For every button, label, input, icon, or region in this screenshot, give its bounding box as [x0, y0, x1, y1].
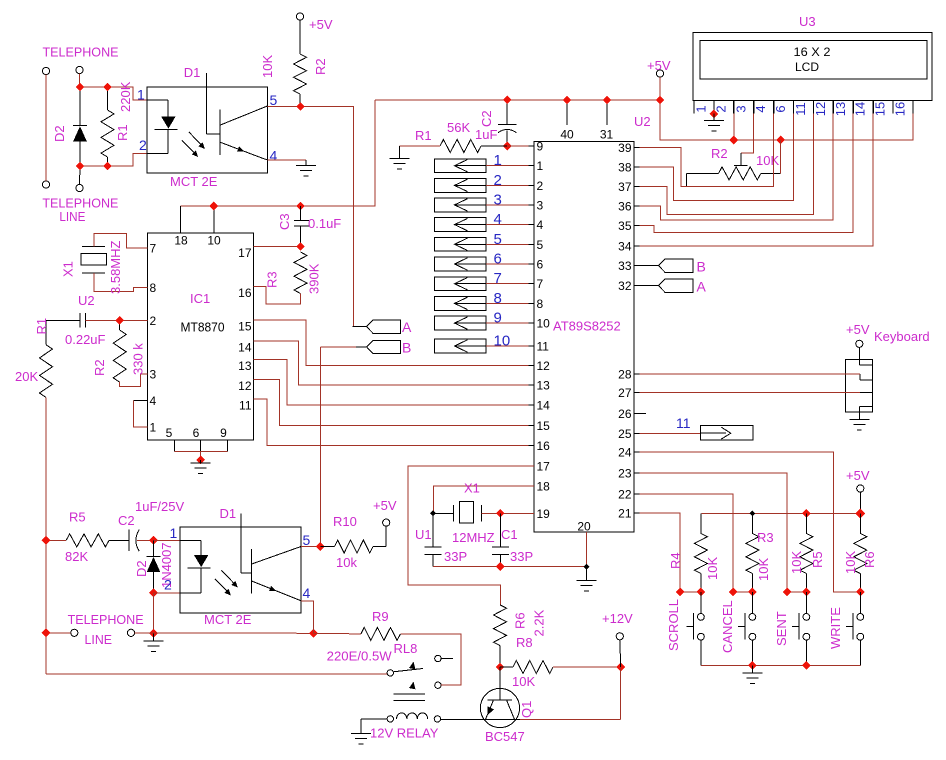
junction dot Q1 base: [496, 663, 505, 672]
svg-text:4: 4: [270, 148, 278, 164]
wire left telephone vertical: [45, 75, 47, 181]
wire MCU pin20 to gnd: [586, 532, 588, 566]
svg-text:1: 1: [170, 525, 178, 541]
svg-text:9: 9: [494, 310, 502, 327]
svg-text:330 k: 330 k: [131, 343, 146, 375]
svg-text:17: 17: [238, 246, 252, 260]
buffer box 3: [435, 198, 487, 212]
junction dot R2/opto1: [296, 102, 305, 111]
junction dot rail R5col: [802, 509, 811, 518]
wire MCU pin27 to keyboard: [640, 391, 861, 393]
wire buffer 6 to MCU: [486, 263, 534, 265]
terminal tel-line A: [71, 629, 78, 636]
wire opto1 pin4 to ground: [268, 159, 306, 161]
wire MCU pin24 to col4: [640, 452, 861, 592]
capacitor U1 33P: [432, 513, 434, 547]
svg-text:10K: 10K: [843, 551, 858, 574]
wire buffer 7 to MCU: [486, 283, 534, 285]
junction dot gnd rail: [748, 661, 757, 670]
junction dot col4: [856, 588, 865, 597]
svg-text:7: 7: [150, 242, 157, 256]
terminal telephone top-right: [76, 66, 83, 73]
wire to opto2 pin2: [154, 592, 181, 594]
MCU pin 36: [634, 205, 640, 207]
svg-text:82K: 82K: [65, 549, 88, 564]
wire rail to R5: [46, 539, 66, 541]
svg-text:C2: C2: [479, 110, 494, 127]
svg-text:9: 9: [537, 140, 544, 154]
resistor R3 10K (switch col 2): [751, 513, 753, 533]
MCU pin 15: [529, 424, 535, 426]
ground (MCU pin20): [577, 581, 597, 591]
svg-text:BC547: BC547: [485, 729, 525, 744]
svg-text:19: 19: [537, 507, 551, 521]
wire MCU pin38 to LCD pin6: [640, 114, 794, 201]
+12V terminal: [616, 633, 623, 640]
terminal tel-line B: [127, 629, 134, 636]
buffer box 1: [435, 159, 487, 173]
junction dot C2 top: [503, 95, 512, 104]
relay coil: [387, 716, 393, 722]
svg-text:C3: C3: [277, 213, 292, 230]
svg-text:4: 4: [537, 218, 544, 232]
wire node to opto2 pin1: [154, 539, 181, 541]
svg-text:R2: R2: [92, 359, 107, 376]
ground (LCD pin1): [704, 121, 724, 131]
diode D2 (telephone clamp): [79, 87, 81, 126]
svg-text:RL8: RL8: [394, 641, 418, 656]
wire pot right to bus: [780, 140, 782, 173]
svg-text:R4: R4: [668, 552, 683, 569]
svg-text:R2: R2: [313, 58, 328, 75]
wire to Q1 collector: [520, 718, 621, 720]
svg-text:40: 40: [560, 128, 574, 142]
svg-text:26: 26: [618, 407, 632, 421]
svg-text:220K: 220K: [118, 81, 133, 112]
junction dot pin2/330k: [115, 316, 124, 325]
wire opto1 pin5 to R2: [268, 106, 301, 108]
svg-text:A: A: [697, 279, 707, 295]
svg-text:31: 31: [600, 128, 614, 142]
buffer box 5: [435, 237, 487, 251]
wire MCU pin22 to col2: [640, 494, 753, 592]
svg-text:Q1: Q1: [519, 701, 534, 718]
junction dot opto2 pin5/R10/tagB: [316, 542, 325, 551]
svg-text:15: 15: [238, 320, 252, 334]
junction dot D2 bottom: [149, 589, 158, 598]
resistor R9 220E/0.5W: [361, 627, 401, 640]
svg-text:6: 6: [773, 105, 788, 112]
MCU pin 7: [529, 283, 535, 285]
svg-text:38: 38: [618, 161, 632, 175]
wire tag B down to opto2 pin5: [319, 347, 321, 547]
svg-text:2.2K: 2.2K: [532, 609, 547, 636]
resistor R3 390K: [294, 252, 307, 294]
svg-text:R8: R8: [516, 635, 533, 650]
svg-text:1: 1: [137, 87, 145, 103]
MCU pin 2: [529, 184, 535, 186]
svg-text:8: 8: [537, 297, 544, 311]
switch gnd rail: [701, 664, 860, 666]
IC1 pin 17: [254, 246, 260, 248]
svg-text:11: 11: [676, 415, 691, 431]
junction dot VDD rail/pin10: [209, 202, 218, 211]
crystal X1 12MHZ: [452, 505, 454, 521]
terminal telephone-line bottom-left: [42, 181, 49, 188]
LCD U3 outer box: [693, 33, 932, 101]
svg-text:9: 9: [220, 426, 227, 440]
node tag B (left): [366, 340, 400, 353]
relay core bars: [394, 693, 426, 695]
wire MCU pin39 to LCD pin4: [640, 114, 774, 187]
buffer box 10: [435, 339, 487, 353]
+5V terminal (switches): [857, 485, 864, 492]
wire crystal to C1 node: [481, 512, 500, 514]
resistor R5 10K (switch col 3): [805, 513, 807, 533]
svg-text:AT89S8252: AT89S8252: [553, 319, 621, 334]
resistor R1 20K: [40, 345, 53, 398]
junction dot col2 left: [729, 588, 738, 597]
wire buffer 3 to MCU: [486, 204, 534, 206]
wire C2 to node: [137, 539, 154, 541]
svg-text:1uF: 1uF: [475, 127, 497, 142]
svg-text:7: 7: [537, 277, 544, 291]
svg-text:1: 1: [694, 105, 709, 112]
capacitor U2 0.22uF: [79, 313, 81, 327]
MCU pin 8: [529, 302, 535, 304]
svg-text:R9: R9: [372, 609, 389, 624]
capacitor C3 0.1uF: [300, 206, 302, 221]
svg-text:18: 18: [174, 234, 188, 248]
junction dot (black) crystal left: [430, 510, 436, 516]
svg-text:2: 2: [139, 137, 147, 153]
terminal telephone-line bottom-right: [76, 184, 83, 191]
junction dot C1 gnd: [496, 562, 505, 571]
svg-text:12: 12: [813, 102, 828, 116]
resistor R1 220K: [101, 110, 114, 157]
svg-text:10: 10: [207, 234, 221, 248]
ground (R1 56K): [390, 159, 410, 169]
svg-text:13: 13: [238, 359, 252, 373]
junction dot LCD pin2 bus: [729, 136, 738, 145]
node tag A (MCU pin32): [640, 285, 659, 287]
MCU pin 11: [529, 345, 535, 347]
wire IC1 pin11 to MCU pin16: [254, 399, 534, 446]
buffer box 2: [435, 179, 487, 193]
svg-text:24: 24: [618, 446, 632, 460]
ground (telephone line): [144, 641, 164, 651]
svg-text:12: 12: [537, 359, 551, 373]
wire MCU pin18 to crystal: [434, 486, 535, 513]
svg-text:TELEPHONE: TELEPHONE: [43, 45, 119, 60]
svg-text:C1: C1: [501, 527, 518, 542]
svg-text:+12V: +12V: [602, 611, 633, 626]
MCU pin 38: [634, 166, 640, 168]
svg-text:28: 28: [618, 368, 632, 382]
buffer box 4: [435, 218, 487, 232]
wire IC1 pin4 to pin1 loop: [133, 400, 147, 402]
svg-text:8: 8: [494, 290, 502, 307]
wire MCU pin23 to col3: [640, 473, 807, 592]
wire +5V top rail: [375, 99, 660, 101]
buffer box 7: [435, 277, 487, 291]
resistor R6 2.2K: [494, 605, 507, 646]
svg-text:D2: D2: [52, 125, 67, 142]
wire buffer 1 to MCU: [486, 165, 534, 167]
IC1 pin 3: [142, 373, 148, 375]
svg-text:+5V: +5V: [846, 468, 870, 483]
svg-text:10K: 10K: [756, 153, 779, 168]
wire X1 top to IC1 pin7: [94, 234, 147, 249]
junction dot col1: [697, 588, 706, 597]
svg-text:220E/0.5W: 220E/0.5W: [327, 649, 393, 664]
wire buffer 10 to MCU: [486, 345, 534, 347]
switch CANCEL: [751, 592, 753, 614]
wire buffer 2 to MCU: [486, 184, 534, 186]
MCU pin 1: [529, 165, 535, 167]
wire MCU pin36 to LCD pin12: [640, 114, 834, 221]
svg-text:U3: U3: [799, 14, 816, 29]
svg-text:R6: R6: [513, 612, 528, 629]
svg-text:34: 34: [618, 240, 632, 254]
MCU pin 9: [529, 145, 535, 147]
wire opto2 pin5 to node: [301, 546, 320, 548]
MCU pin 26: [634, 413, 640, 415]
svg-text:21: 21: [618, 507, 632, 521]
svg-text:20: 20: [577, 520, 591, 534]
transistor Q1 BC547: [480, 688, 519, 727]
junction dot pot bus: [776, 136, 785, 145]
MCU top pins 40 31: [566, 100, 568, 125]
svg-text:22: 22: [618, 488, 632, 502]
junction dot C2 bottom: [503, 142, 512, 151]
svg-text:3: 3: [537, 198, 544, 212]
svg-text:5: 5: [494, 231, 502, 248]
svg-text:TELEPHONE: TELEPHONE: [68, 612, 144, 627]
wire D2 node down: [153, 593, 155, 633]
IC1 pin 7: [142, 247, 148, 249]
wire R8 to +12V node: [553, 666, 621, 668]
buffer box 6: [435, 257, 487, 271]
svg-text:A: A: [402, 319, 412, 335]
svg-text:R1: R1: [415, 128, 432, 143]
opto1 light arrows: [189, 132, 202, 146]
opto-coupler MCT 2E (lower) box: [180, 527, 301, 613]
svg-text:15: 15: [537, 419, 551, 433]
MCU pin 28: [634, 373, 640, 375]
svg-text:6: 6: [494, 251, 502, 268]
svg-text:R5: R5: [810, 551, 825, 568]
potentiometer R2 10K (LCD contrast): [719, 167, 761, 180]
junction dot: [76, 83, 85, 92]
junction dot: [103, 83, 112, 92]
wire opto2 pin4 down: [301, 601, 314, 634]
ground (relay coil): [351, 734, 371, 744]
svg-text:16: 16: [238, 286, 252, 300]
svg-text:MCT 2E: MCT 2E: [170, 174, 218, 189]
svg-text:B: B: [697, 259, 706, 275]
svg-text:R10: R10: [333, 514, 357, 529]
svg-text:B: B: [402, 340, 411, 356]
svg-text:33P: 33P: [444, 549, 467, 564]
ground (opto1 pin4): [296, 166, 316, 176]
junction dot col1 left: [676, 588, 685, 597]
svg-text:35: 35: [618, 219, 632, 233]
wire R9 to relay lower contact: [400, 634, 461, 685]
svg-text:R1: R1: [34, 318, 49, 335]
svg-text:16: 16: [893, 102, 908, 116]
svg-text:33: 33: [618, 259, 632, 273]
MCU pin 18: [529, 485, 535, 487]
MCU pin 32: [634, 285, 640, 287]
wire caps gnd rail: [433, 566, 586, 568]
svg-text:SCROLL: SCROLL: [666, 599, 681, 651]
resistor R2 10K pull-up (top): [294, 54, 307, 94]
wire buffer 4 to MCU: [486, 224, 534, 226]
MCU pin 27: [634, 391, 640, 393]
svg-text:16: 16: [537, 439, 551, 453]
junction dot VDD rail/C3: [296, 202, 305, 211]
+5V switch rail: [701, 512, 860, 514]
+5V terminal (top): [656, 70, 663, 77]
svg-text:6: 6: [537, 258, 544, 272]
junction dot: [76, 162, 85, 171]
opto-coupler MCT 2E (upper) box: [147, 87, 267, 173]
wire MCU pin35 to LCD pin13: [640, 114, 854, 233]
relay upper contact: [435, 655, 441, 661]
svg-text:15: 15: [873, 102, 888, 116]
svg-text:5: 5: [303, 532, 311, 548]
buffer box 9: [435, 316, 487, 330]
svg-text:CANCEL: CANCEL: [720, 600, 735, 653]
svg-text:X1: X1: [464, 481, 480, 496]
MCU pin 12: [529, 365, 535, 367]
+5V terminal (R2): [296, 13, 303, 20]
svg-text:17: 17: [537, 459, 551, 473]
switch SCROLL: [700, 592, 702, 614]
wire IC1 pin12 to MCU pin15: [254, 380, 534, 426]
wire Q1 emitter to relay coil: [481, 718, 520, 720]
crystal X1 3.58MHZ: [82, 246, 105, 248]
svg-text:1: 1: [150, 421, 157, 435]
svg-text:12MHZ: 12MHZ: [452, 530, 495, 545]
junction dot left rail: [42, 628, 51, 637]
ground (IC1): [191, 463, 211, 473]
svg-text:1: 1: [537, 159, 544, 173]
relay lower contact: [435, 682, 441, 688]
junction dot (black) rail R3col: [750, 511, 756, 517]
svg-text:U2: U2: [634, 114, 651, 129]
svg-text:R3: R3: [757, 530, 774, 545]
MCU pin 24: [634, 451, 640, 453]
LCD inner box: [700, 41, 927, 80]
junction dot C2/D2/opto2: [149, 536, 158, 545]
+5V terminal (R10): [383, 519, 390, 526]
junction dot +5V rail: [855, 508, 865, 518]
svg-text:14: 14: [853, 102, 868, 116]
svg-text:3: 3: [494, 191, 502, 208]
capacitor C1 33P: [499, 513, 501, 547]
capacitor C2 1uF/25V: [109, 539, 129, 541]
ground (switches): [742, 673, 762, 683]
svg-text:D1: D1: [184, 65, 201, 80]
wire +5V rail down to IC1 VDD: [181, 100, 375, 206]
IC1 pin 13: [254, 359, 260, 361]
node tag A (left): [366, 320, 400, 333]
wire IC1 pin13 to MCU pin14: [254, 360, 534, 406]
junction dot IC1 gnd: [196, 456, 205, 465]
IC U=IC1 MT8870 box: [147, 233, 253, 440]
svg-text:23: 23: [618, 467, 632, 481]
capacitor C2 1uF (rail): [506, 100, 508, 125]
svg-text:1: 1: [494, 152, 502, 169]
svg-text:10K: 10K: [512, 674, 535, 689]
wire bottom node to opto1 pin2: [80, 153, 147, 166]
junction dot C3/R3: [296, 242, 305, 251]
relay pole terminal: [387, 670, 393, 676]
svg-text:390K: 390K: [307, 263, 322, 294]
wire MCU pin37 to LCD pin11: [640, 114, 814, 215]
svg-text:+5V: +5V: [309, 17, 333, 32]
svg-text:39: 39: [618, 141, 632, 155]
svg-text:37: 37: [618, 180, 632, 194]
diode D2 1N4007: [153, 540, 155, 556]
wire 0.22uF to IC1 pin2: [86, 319, 148, 321]
junction dot R9/opto2 pin4: [309, 629, 318, 638]
wire left rail to relay pole: [46, 673, 387, 675]
svg-text:13: 13: [833, 102, 848, 116]
svg-text:+5V: +5V: [647, 58, 671, 73]
wire LCD pin3 to pot wiper: [741, 114, 754, 154]
svg-text:36: 36: [618, 200, 632, 214]
svg-text:X1: X1: [61, 261, 76, 277]
svg-text:2: 2: [164, 577, 172, 593]
svg-text:2: 2: [494, 172, 502, 189]
wire MCU pin17 to R6 2.2K: [408, 466, 534, 605]
wire to MCU pin19: [500, 512, 534, 514]
wire MCU pin34 to LCD pin14: [640, 114, 874, 247]
svg-text:U2: U2: [78, 293, 95, 308]
wire top node to opto1 pin1: [80, 87, 147, 100]
resistor R2 330k: [113, 330, 126, 382]
IC1 pin 16: [254, 286, 260, 288]
svg-text:10K: 10K: [260, 55, 275, 78]
svg-text:2: 2: [150, 314, 157, 328]
MCU pin 21: [634, 512, 640, 514]
IC1 pin 2: [142, 319, 148, 321]
MCU pin 14: [529, 404, 535, 406]
IC1 pin 1: [142, 426, 148, 428]
svg-text:4: 4: [494, 211, 502, 228]
resistor R10 10k: [335, 540, 374, 553]
IC1 pin 18: [180, 206, 182, 233]
MCU pin 17: [529, 465, 535, 467]
svg-text:5: 5: [270, 92, 278, 108]
node tag B (MCU pin33): [640, 265, 659, 267]
svg-text:12: 12: [238, 379, 252, 393]
wire T2 to node: [79, 74, 81, 87]
svg-text:10k: 10k: [336, 555, 357, 570]
svg-text:2: 2: [537, 179, 544, 193]
junction dot LCD pin1: [710, 110, 719, 119]
ground (keyboard): [849, 420, 869, 430]
IC1 pin 14: [254, 340, 260, 342]
svg-text:U1: U1: [415, 527, 432, 542]
switch WRITE: [859, 592, 861, 614]
MCU pin 22: [634, 493, 640, 495]
svg-text:5: 5: [537, 238, 544, 252]
+5V terminal (keyboard): [856, 340, 863, 347]
